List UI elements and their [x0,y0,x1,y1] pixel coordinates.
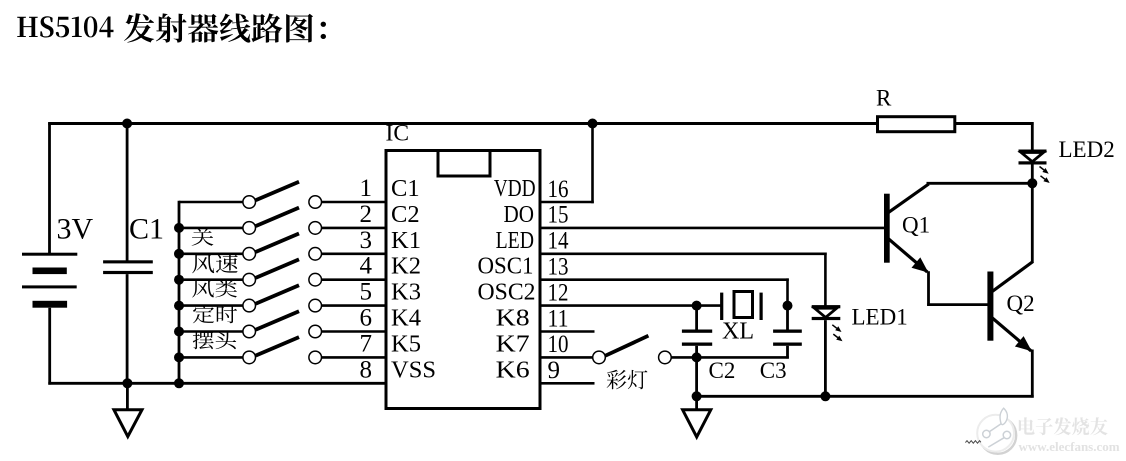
svg-text:C1: C1 [391,175,420,202]
pin label VSS [391,356,436,383]
label 风类 [192,279,237,297]
svg-text:8: 8 [360,356,373,383]
watermark url [1019,439,1120,454]
label LED2 [1059,137,1115,162]
pin number 1 [360,175,373,202]
switch S7 摆头 pole contact [243,351,256,364]
switch S1 lever [256,182,299,201]
pin label LED [496,227,534,254]
svg-text:VSS: VSS [391,356,436,383]
svg-text:IC: IC [386,121,410,147]
pin number 6 [360,305,373,332]
switch S8 彩灯 throw contact [659,351,672,364]
wire battery negative drop [48,308,51,385]
wire switch S5 left lead [179,304,243,307]
wire switch S4 left lead [179,278,243,281]
battery BT1 3V [22,253,77,308]
IC U1 notch [438,151,490,177]
pin number 2 [360,201,373,228]
label C1 [129,213,164,246]
wire pin 3 lead [321,253,386,256]
wire top supply rail right [955,122,1034,125]
capacitor C2 [682,306,712,359]
svg-text:9: 9 [548,357,561,384]
svg-text:7: 7 [360,330,373,357]
svg-text:13: 13 [548,254,569,281]
switch S6 定时 throw contact [309,325,322,338]
wire pin10 K7 lead [540,356,593,359]
node VDD rail junction [588,119,598,129]
title HS5104 [17,16,113,37]
wire Q2 emitter drop [1031,350,1034,398]
label XL [722,319,754,345]
wire rail to LED2 drop [1031,122,1034,150]
svg-text:K5: K5 [391,330,421,357]
wire pin15 DO to Q1 base [540,227,885,230]
switch S6 定时 pole contact [243,325,256,338]
svg-text:K8: K8 [496,305,530,332]
wire key bus vertical [178,201,181,385]
svg-text:R: R [876,86,892,111]
node key bus junction row 2 [174,223,184,233]
wire pin 5 lead [321,304,386,307]
wire pin 2 lead [321,227,386,230]
pin number 7 [360,330,373,357]
wire bottom emitter rail [695,395,1033,398]
pin label K8 [496,305,530,332]
svg-text:OSC2: OSC2 [478,279,536,306]
switch S5 风类 pole contact [243,299,256,312]
switch S1 throw contact [309,196,322,209]
label R [876,86,892,111]
node LED1 cathode rail junction [820,391,830,401]
switch S2 lever [256,208,299,227]
pin number 5 [360,279,373,306]
switch S7 摆头 throw contact [309,351,322,364]
switch S1 pole contact [243,196,256,209]
pin label K1 [391,227,421,254]
svg-text:10: 10 [548,331,569,358]
label 彩灯 [607,370,648,389]
label 定时 [193,305,237,323]
svg-text:C2: C2 [391,201,420,228]
svg-text:12: 12 [548,279,569,306]
switch S8 彩灯 pole contact [593,351,606,364]
label C3 [760,358,787,383]
wire crystal ground riser [695,357,698,397]
capacitor C3 [773,306,802,359]
node LED2 cathode junction [1027,178,1037,188]
transistor Q1 [884,184,929,273]
IC U1 HS5104 body [386,151,540,409]
LED D2 [1019,150,1047,185]
svg-text:OSC1: OSC1 [478,253,534,280]
switch S5 风类 lever [256,285,299,304]
node key bus junction row 7 [174,352,184,362]
node ground2 rail junction [692,391,702,401]
svg-text:6: 6 [360,305,373,332]
label Q1 [902,213,930,238]
pin number 14 [548,228,569,255]
wire pin 6 lead [321,330,386,333]
svg-text:K6: K6 [496,356,530,383]
capacitor C1 [103,124,153,385]
node key bus junction row 5 [174,301,184,311]
wire pin12 OSC2 lead [540,304,723,307]
wire LED1 anode riser [824,253,827,306]
ground GND1 [114,383,142,436]
svg-text:Q2: Q2 [1007,291,1035,316]
wire OSC1 riser [786,278,789,305]
switch S2 throw contact [309,222,322,235]
svg-text:Q1: Q1 [902,213,930,238]
label C2 [709,358,736,383]
pin label K4 [391,305,421,332]
wire switch S3 left lead [179,253,243,256]
label IC [386,121,410,147]
svg-text:1: 1 [360,175,373,202]
svg-text:C3: C3 [760,358,787,383]
svg-text:11: 11 [548,305,569,332]
wire battery positive drop [48,122,51,254]
wire Q1 emitter to Q2 base [927,303,988,306]
pin label K3 [391,279,421,306]
label 风速 [192,253,238,273]
pin number 9 [548,357,561,384]
pin label OSC1 [478,253,534,280]
pin number 10 [548,331,569,358]
LED D1 light arrows [832,325,842,342]
LED D1 [812,305,841,398]
wire Q1 emitter drop [927,271,930,306]
svg-text:K3: K3 [391,279,421,306]
switch S3 关 lever [256,234,299,253]
svg-text:K1: K1 [391,227,421,254]
label LED1 [852,305,908,330]
svg-text:LED: LED [496,227,534,254]
wire S8 to C2 bottom node [671,356,789,359]
pin number 11 [548,305,569,332]
svg-text:16: 16 [548,176,569,203]
pin number 15 [548,202,569,229]
wire pin13 OSC1 lead [540,278,789,281]
svg-text:LED1: LED1 [852,305,908,330]
watermark logo elecfans [965,408,1016,454]
pin number 16 [548,176,569,203]
pin label K6 [496,356,530,383]
switch S3 关 throw contact [309,248,322,261]
node key bus junction row 3 [174,249,184,259]
pin label VDD [494,175,536,202]
ground GND2 [683,396,711,437]
wire Q1 collector to LED2 node [927,182,1034,185]
resistor R [878,117,955,132]
pin label K7 [496,330,530,357]
pin label K5 [391,330,421,357]
crystal XL plates [720,292,763,321]
wire Q2 collector riser [1031,182,1034,263]
svg-text:15: 15 [548,202,569,229]
node key bus junction row 6 [174,327,184,337]
LED D2 light arrows [1040,167,1050,184]
pin number 4 [360,253,373,280]
svg-text:VDD: VDD [494,175,536,202]
svg-text:C2: C2 [709,358,736,383]
node C1 top junction [122,119,132,129]
wire pin 4 lead [321,278,386,281]
svg-text:5: 5 [360,279,373,306]
wire switch S2 left lead [179,227,243,230]
svg-text:LED2: LED2 [1059,137,1115,162]
pin label C2 [391,201,420,228]
wire bottom VSS rail [48,382,386,385]
svg-text:2: 2 [360,201,373,228]
switch S5 风类 throw contact [309,299,322,312]
node key bus bottom junction [174,378,184,388]
node C2 ground junction [692,352,702,362]
svg-text:3V: 3V [57,213,94,246]
node OSC1 crystal right junction [783,301,793,311]
wire top supply rail left [48,122,877,125]
wire pin16 VDD stub [540,201,594,204]
svg-text:3: 3 [360,227,373,254]
svg-text:4: 4 [360,253,373,280]
node OSC2 crystal left junction [692,301,702,311]
pin number 8 [360,356,373,383]
svg-text:K7: K7 [496,330,530,357]
svg-text:14: 14 [548,228,569,255]
svg-text:XL: XL [722,319,754,345]
svg-text:K2: K2 [391,253,421,280]
switch S2 pole contact [243,222,256,235]
wire pin 1 lead [321,201,386,204]
pin label OSC2 [478,279,536,306]
wire switch S6 left lead [179,330,243,333]
label 3V [57,213,94,246]
switch S8 彩灯 lever [605,336,648,356]
pin label DO [504,201,535,228]
switch S4 风速 pole contact [243,273,256,286]
pin label C1 [391,175,420,202]
pin number 3 [360,227,373,254]
label 摆头 [193,331,236,349]
wire switch S7 left lead [179,356,243,359]
wire VDD riser [591,124,594,204]
label 关 [192,228,214,246]
svg-text:DO: DO [504,201,535,228]
watermark 电子发烧友 [1019,417,1108,435]
pin label K2 [391,253,421,280]
svg-text:www.elecfans.com: www.elecfans.com [1019,439,1120,454]
wire pin11 K8 stub [540,330,595,333]
wire pin9 K6 stub [540,382,595,385]
transistor Q2 [987,262,1033,352]
wire pin 7 lead [321,356,386,359]
pin number 13 [548,254,569,281]
title 发射器线路图： [124,13,326,42]
switch S3 关 pole contact [243,248,256,261]
svg-text:C1: C1 [129,213,164,246]
switch S7 摆头 lever [256,337,299,356]
label Q2 [1007,291,1035,316]
switch S4 风速 throw contact [309,273,322,286]
switch S4 风速 lever [256,259,299,278]
wire pin14 LED lead [540,253,827,256]
node C1 bottom junction [122,378,132,388]
svg-text:K4: K4 [391,305,421,332]
wire switch S1 left lead [179,201,243,204]
pin number 12 [548,279,569,306]
node key bus junction row 4 [174,275,184,285]
switch S6 定时 lever [256,311,299,330]
